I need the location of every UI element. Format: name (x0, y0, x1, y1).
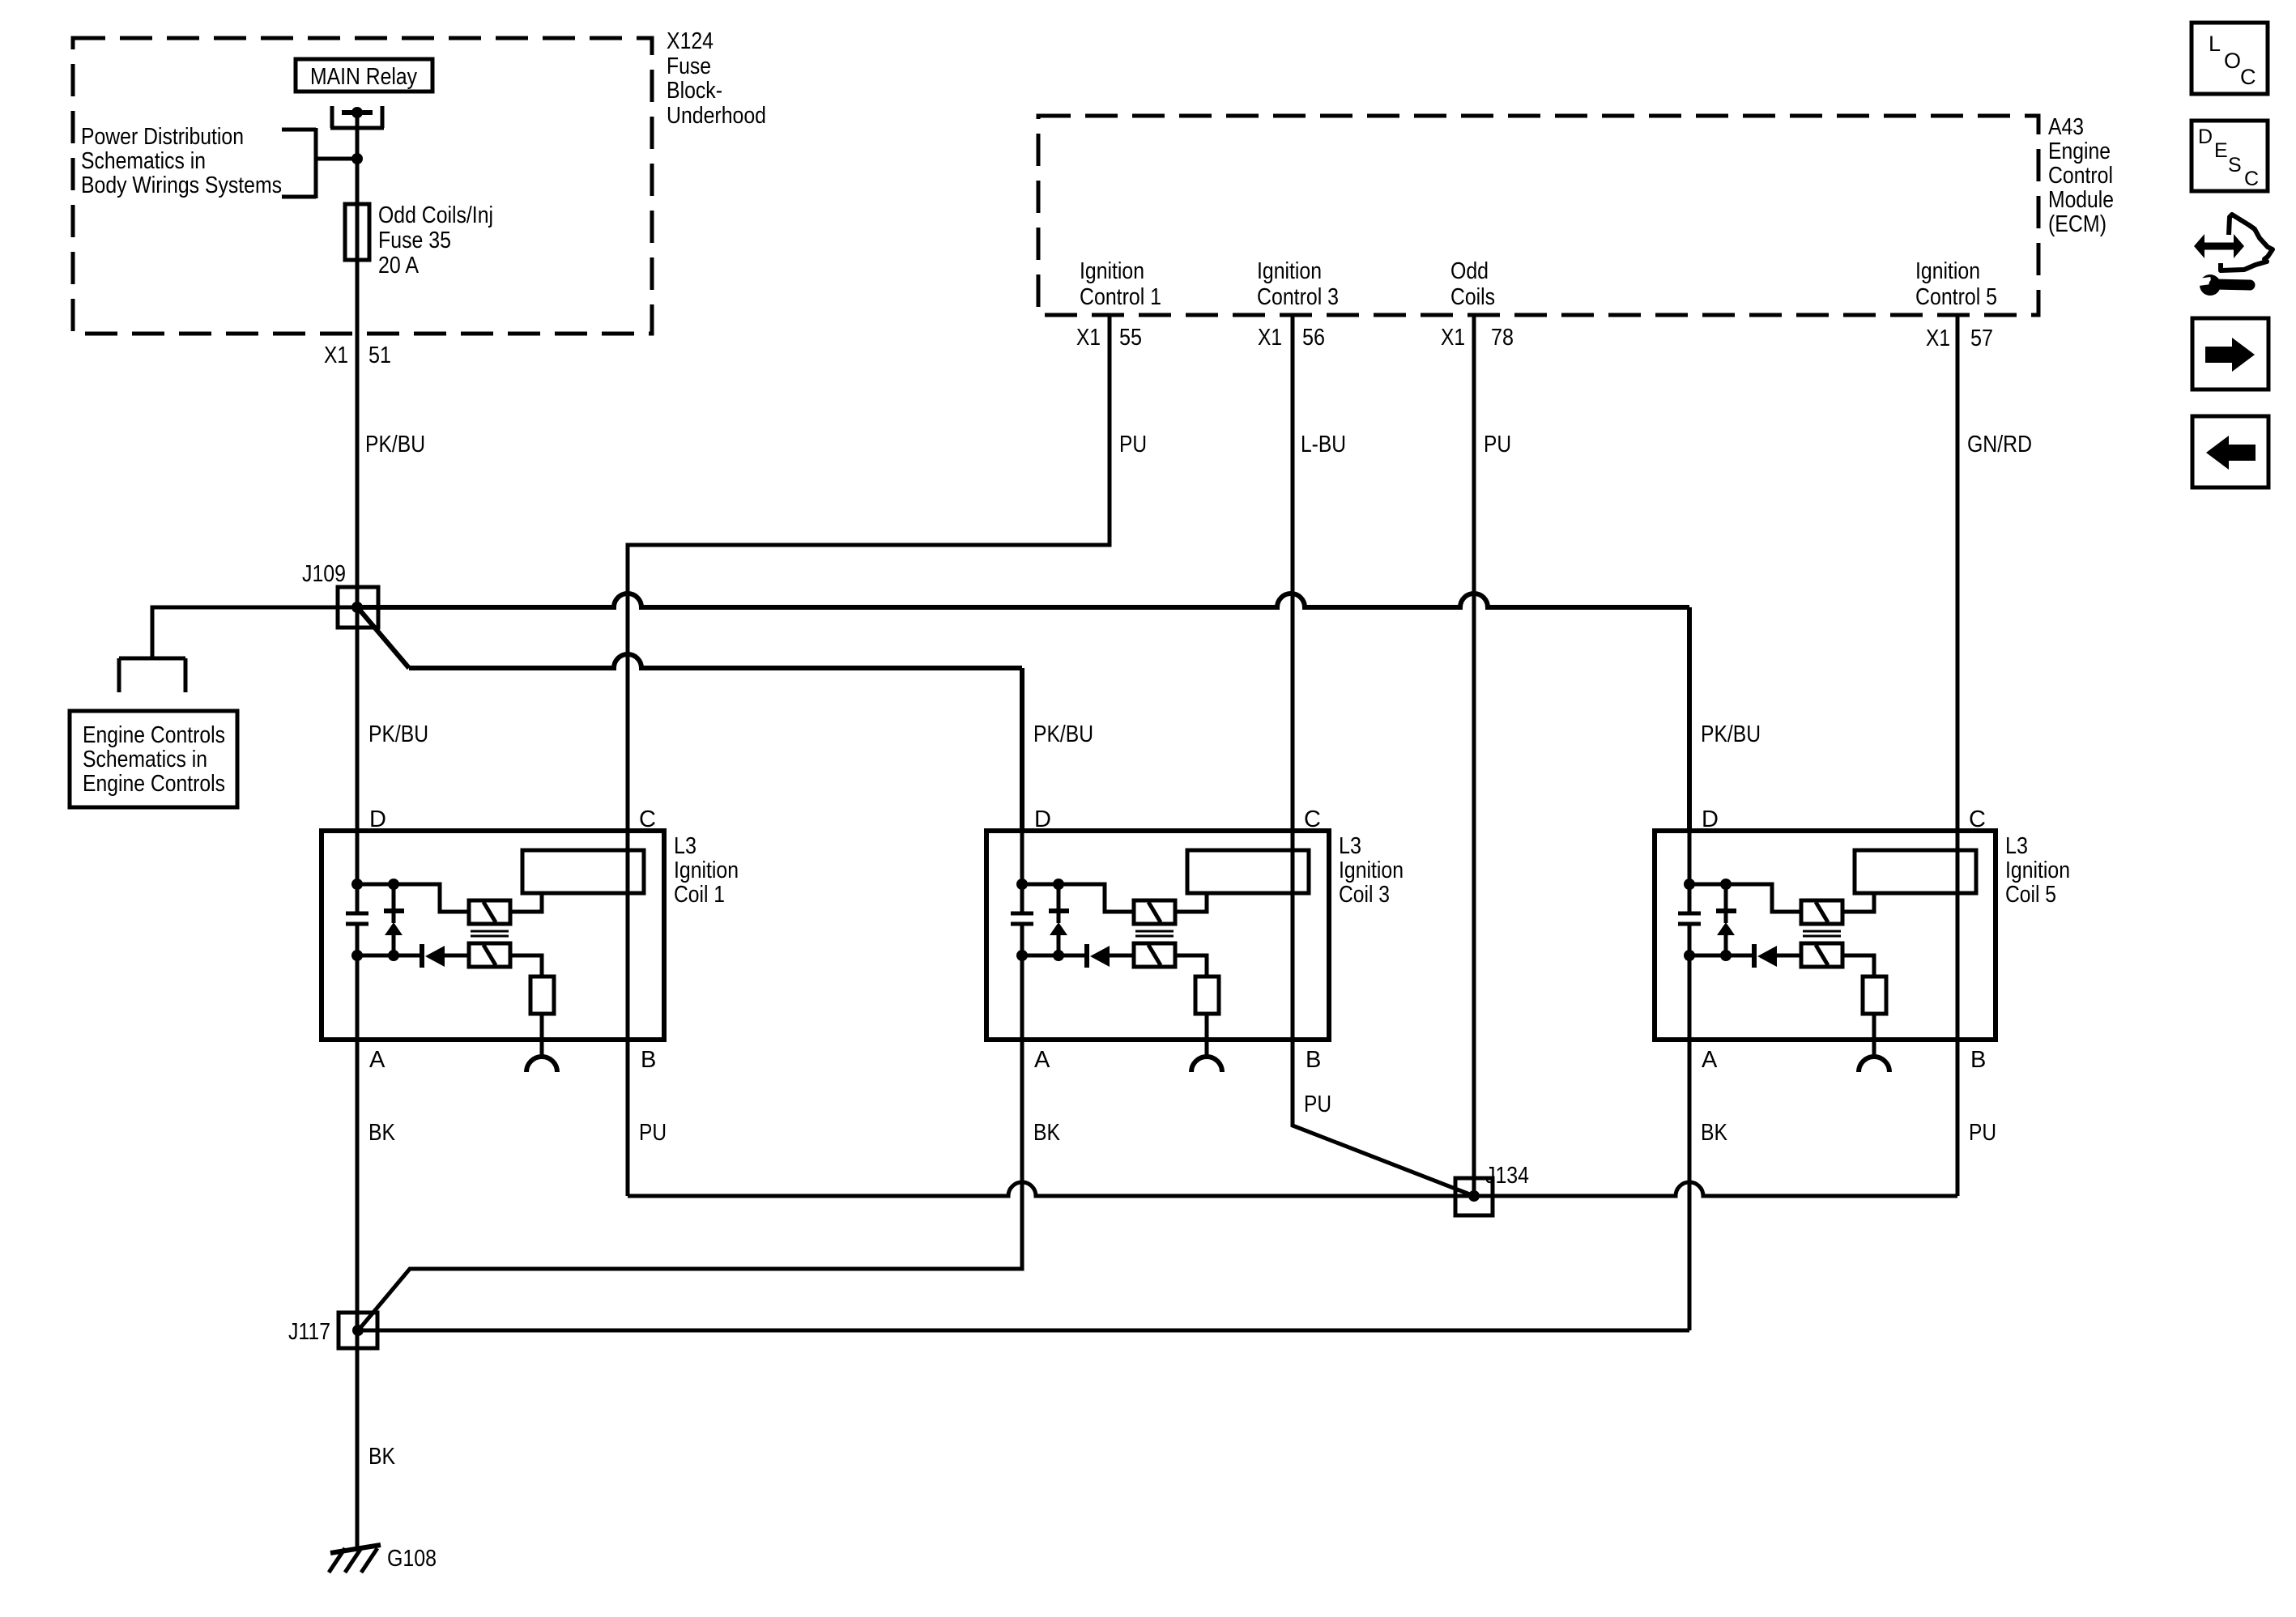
bus wire BK - J117 ground bus to coil5 pin A (358, 1329, 1689, 1333)
svg-text:Body Wirings Systems: Body Wirings Systems (81, 172, 282, 198)
svg-text:J109: J109 (302, 561, 346, 587)
svg-text:Fuse 35: Fuse 35 (378, 228, 451, 253)
node - coil 5 zener top junction (1720, 879, 1732, 890)
svg-text:BK: BK (1701, 1120, 1728, 1146)
svg-text:D: D (1702, 806, 1719, 832)
label Ignition Control 3 (ECM pin function) (1257, 258, 1339, 310)
svg-text:D: D (2198, 126, 2213, 148)
node - coil 1 zener top junction (388, 879, 399, 890)
node - coil 1 diode-branch junction (388, 950, 399, 961)
wire - coil5 pin C vertical through module (1956, 831, 1960, 1040)
svg-text:57: 57 (1970, 326, 1993, 351)
wire - coil 3 lower driver to resistor (1175, 955, 1207, 977)
splice J134 box (1455, 1178, 1493, 1215)
label Odd Coils (ECM pin function) (1450, 258, 1495, 310)
label connector X1 pin 51 (324, 343, 391, 368)
wire - coil 3 internal D-A line (1020, 831, 1024, 1040)
primary winding box - coil 3 (1187, 850, 1309, 893)
resistor - coil 5 secondary (1863, 977, 1886, 1014)
wire - coil 1 upper driver to primary winding (510, 893, 542, 912)
icon back arrow box (2192, 416, 2268, 487)
relay contact (MAIN relay switch) (330, 106, 384, 128)
ECM A43 dashed outline (1038, 116, 2038, 315)
svg-text:PU: PU (639, 1120, 667, 1146)
label connector X1 pin 78 (1441, 325, 1514, 351)
node - coil 1 upper-left junction (351, 879, 363, 890)
svg-text:PK/BU: PK/BU (368, 721, 428, 747)
svg-text:X1: X1 (1926, 326, 1950, 351)
svg-text:Ignition: Ignition (1257, 258, 1322, 284)
driver stage upper - coil 1 (box with slash) (469, 900, 510, 924)
svg-text:S: S (2228, 154, 2242, 177)
svg-text:PK/BU: PK/BU (1701, 721, 1761, 747)
svg-text:MAIN Relay: MAIN Relay (310, 64, 417, 90)
svg-text:PU: PU (1969, 1120, 1996, 1146)
svg-text:A: A (1702, 1047, 1718, 1073)
svg-text:51: 51 (368, 343, 391, 368)
wire - coil 5 upper driver to primary winding (1842, 893, 1874, 912)
ignition coil L3 #3 module outline (986, 831, 1329, 1040)
wire BK - coil3 pin A down and left toward J117 (360, 1040, 1022, 1329)
wire - coil 3 lower internal branch (1022, 954, 1084, 958)
ground G108 symbol (329, 1545, 381, 1572)
svg-text:Coil 5: Coil 5 (2005, 882, 2056, 908)
splice J109 box (338, 587, 378, 628)
wire - coil 5 lower internal branch (1689, 954, 1752, 958)
svg-text:C: C (639, 806, 656, 832)
driver stage upper - coil 5 (box with slash) (1801, 900, 1842, 924)
bus wire PU - coil1 B to J134 to coil5 B (hops over ground wires) (628, 1182, 1957, 1196)
svg-text:PK/BU: PK/BU (1033, 721, 1093, 747)
svg-text:Control 3: Control 3 (1257, 284, 1339, 310)
wire - fuse to connector X1 pin 51 (356, 260, 360, 334)
label L3 Ignition Coil 3 (1339, 833, 1404, 908)
svg-text:B: B (1970, 1047, 1986, 1073)
wire - coil 1 lower driver to resistor (510, 955, 542, 977)
core bars - coil 1 (471, 931, 509, 936)
svg-text:B: B (641, 1047, 656, 1073)
diode - coil 1 (cathode left) (422, 944, 469, 968)
svg-text:(ECM): (ECM) (2048, 211, 2106, 237)
bracket - Power Distribution reference (282, 128, 357, 198)
MAIN Relay name box (296, 59, 432, 91)
wire PU - ECM pin 55 to coil1 pin C (628, 315, 1110, 1196)
svg-text:A: A (1034, 1047, 1050, 1073)
icon forward arrow box (2192, 318, 2268, 389)
node - coil 5 diode-branch junction (1720, 950, 1732, 961)
wire - coil 5 internal D-A line (1688, 831, 1692, 1040)
svg-text:20 A: 20 A (378, 253, 420, 279)
svg-text:Control 5: Control 5 (1915, 284, 1997, 310)
svg-text:Odd Coils/Inj: Odd Coils/Inj (378, 202, 493, 228)
capacitor - coil 3 suppression (1011, 913, 1033, 924)
primary winding box - coil 1 (522, 850, 644, 893)
capacitor - coil 1 suppression (346, 913, 368, 924)
fuse F35 Odd Coils/Inj 20A symbol (345, 204, 369, 260)
label L3 Ignition Coil 1 (674, 833, 739, 908)
icon LOC box (2192, 23, 2268, 94)
icon part-locator (double arrow, part outline, wrench) (2187, 215, 2273, 296)
bus wire PK/BU - J109 to coil5 pin D (hops over crossing wires) (357, 594, 1689, 607)
ignition coil L3 #1 module outline (322, 831, 664, 1040)
driver stage upper - coil 3 (box with slash) (1134, 900, 1175, 924)
node - coil 3 diode-branch junction (1053, 950, 1064, 961)
zener diode - coil 5 clamp (1716, 884, 1736, 955)
driver stage lower - coil 3 (box with slash) (1134, 943, 1175, 967)
core bars - coil 5 (1803, 931, 1841, 936)
svg-text:Coil 3: Coil 3 (1339, 882, 1390, 908)
wire PK/BU - bus drop to coil5 pin D (1687, 607, 1692, 831)
svg-text:X1: X1 (1258, 325, 1282, 351)
svg-text:C: C (2240, 65, 2256, 89)
svg-text:E: E (2214, 139, 2228, 162)
diode - coil 5 (cathode left) (1754, 944, 1801, 968)
wire BK - coil1 pin A down to splice J117 (356, 1040, 360, 1548)
svg-text:Engine Controls: Engine Controls (83, 722, 225, 748)
svg-text:O: O (2224, 49, 2241, 73)
svg-text:PU: PU (1119, 432, 1147, 457)
resistor - coil 3 secondary (1195, 977, 1219, 1014)
svg-text:X1: X1 (1076, 325, 1101, 351)
svg-text:Ignition: Ignition (674, 857, 739, 883)
svg-text:Block-: Block- (667, 78, 722, 104)
label connector X1 pin 55 (1076, 325, 1142, 351)
wire L-BU - ECM pin 56 to coil3 pin C (1291, 315, 1295, 831)
spark plug gap - coil 3 (1191, 1057, 1222, 1072)
label connector X1 pin 57 (1926, 326, 1993, 351)
zener diode - coil 3 clamp (1049, 884, 1069, 955)
svg-text:C: C (1969, 806, 1986, 832)
svg-text:55: 55 (1119, 325, 1142, 351)
wire - coil 3 top internal branch (1022, 884, 1134, 912)
node - coil 3 zener top junction (1053, 879, 1064, 890)
label Odd Coils/Inj Fuse 35 20 A (378, 202, 493, 279)
svg-text:Power Distribution: Power Distribution (81, 124, 244, 150)
wire BK - coil5 pin A down to ground bus (1688, 1040, 1692, 1330)
svg-text:X1: X1 (324, 343, 348, 368)
node - coil 1 lower-left junction (351, 950, 363, 961)
svg-text:Ignition: Ignition (1915, 258, 1980, 284)
svg-text:B: B (1306, 1047, 1321, 1073)
node - coil 5 upper-left junction (1684, 879, 1695, 890)
node - coil 5 lower-left junction (1684, 950, 1695, 961)
svg-text:L3: L3 (2005, 833, 2028, 859)
svg-text:Control: Control (2048, 163, 2113, 189)
svg-text:Ignition: Ignition (2005, 857, 2070, 883)
svg-text:C: C (1304, 806, 1321, 832)
label A43 Engine Control Module (ECM) (2048, 114, 2114, 237)
label Ignition Control 5 (ECM pin function) (1915, 258, 1997, 310)
svg-text:A43: A43 (2048, 114, 2084, 140)
node - J134 junction dot (1468, 1190, 1480, 1202)
svg-text:X1: X1 (1441, 325, 1465, 351)
wire PK/BU - X124 pin51 down to J109 and coil1 pin D (356, 334, 360, 831)
svg-text:A: A (369, 1047, 386, 1073)
svg-text:L: L (2209, 32, 2221, 56)
spark plug gap - coil 5 (1859, 1057, 1889, 1072)
svg-text:Fuse: Fuse (667, 53, 711, 79)
driver stage lower - coil 1 (box with slash) (469, 943, 510, 967)
splice J117 box (339, 1313, 377, 1348)
svg-text:BK: BK (1033, 1120, 1061, 1146)
node - J117 junction dot (352, 1325, 364, 1336)
svg-text:Engine Controls: Engine Controls (83, 771, 225, 797)
svg-text:Ignition: Ignition (1339, 857, 1404, 883)
svg-text:GN/RD: GN/RD (1967, 432, 2032, 457)
node - coil 3 lower-left junction (1016, 950, 1028, 961)
label X124 Fuse Block-Underhood (667, 28, 766, 129)
wire - coil 5 resistor to spark gap (1872, 1014, 1876, 1057)
svg-text:Coils: Coils (1450, 284, 1495, 310)
svg-text:D: D (369, 806, 386, 832)
core bars - coil 3 (1135, 931, 1174, 936)
svg-text:J117: J117 (288, 1319, 330, 1345)
svg-text:PU: PU (1304, 1091, 1331, 1117)
svg-text:PK/BU: PK/BU (365, 432, 425, 457)
svg-text:78: 78 (1491, 325, 1514, 351)
svg-text:Control 1: Control 1 (1080, 284, 1161, 310)
svg-text:L-BU: L-BU (1301, 432, 1346, 457)
svg-text:Engine: Engine (2048, 138, 2111, 164)
primary winding box - coil 5 (1855, 850, 1976, 893)
wire - coil 1 internal D-A line (356, 831, 360, 1040)
wire - relay to fuse (356, 113, 360, 204)
svg-text:56: 56 (1302, 325, 1325, 351)
svg-text:BK: BK (368, 1444, 396, 1470)
wire - coil3 pin C vertical through module (1291, 831, 1295, 1040)
node - junction dot at relay feed (351, 153, 363, 164)
svg-text:C: C (2244, 168, 2259, 190)
svg-text:Underhood: Underhood (667, 103, 766, 129)
svg-text:D: D (1034, 806, 1051, 832)
node - coil 3 upper-left junction (1016, 879, 1028, 890)
label Power Distribution Schematics in Body Wirings Systems (81, 124, 282, 198)
label box Engine Controls Schematics in Engine Controls (70, 711, 237, 807)
wire - coil 5 lower driver to resistor (1842, 955, 1874, 977)
svg-text:Schematics in: Schematics in (81, 148, 206, 174)
spark plug gap - coil 1 (526, 1057, 557, 1072)
svg-text:J134: J134 (1485, 1163, 1529, 1189)
icon DESC box (2192, 121, 2268, 191)
wire - J109 left branch to Engine Controls reference (152, 607, 357, 658)
wire - coil 1 lower internal branch (357, 954, 420, 958)
svg-text:PU: PU (1484, 432, 1511, 457)
resistor - coil 1 secondary (530, 977, 554, 1014)
label L3 Ignition Coil 5 (2005, 833, 2070, 908)
svg-text:Coil 1: Coil 1 (674, 882, 725, 908)
diode - coil 3 (cathode left) (1087, 944, 1134, 968)
zener diode - coil 1 clamp (384, 884, 404, 955)
svg-text:L3: L3 (1339, 833, 1361, 859)
wire GN/RD - ECM pin 57 to coil5 pin C (1956, 315, 1960, 1196)
svg-text:L3: L3 (674, 833, 696, 859)
fuse block X124 dashed outline (73, 38, 652, 334)
svg-text:G108: G108 (387, 1546, 437, 1572)
wire PK/BU - J109 diagonal branch to coil3 pin D (359, 609, 1022, 831)
wire PU - coil3 pin B diagonal to splice J134 (1293, 1040, 1474, 1196)
svg-text:X124: X124 (667, 28, 714, 54)
wire - coil1 pin C vertical through module (626, 831, 630, 1040)
svg-text:BK: BK (368, 1120, 396, 1146)
wire - coil 1 resistor to spark gap (540, 1014, 544, 1057)
driver stage lower - coil 5 (box with slash) (1801, 943, 1842, 967)
label connector X1 pin 56 (1258, 325, 1325, 351)
svg-text:Ignition: Ignition (1080, 258, 1144, 284)
wire PU - ECM pin 78 Odd Coils down to splice J134 (1472, 315, 1476, 1196)
wire - coil 1 top internal branch (357, 884, 469, 912)
svg-text:Module: Module (2048, 187, 2114, 213)
svg-text:Odd: Odd (1450, 258, 1489, 284)
node - J109 junction dot (351, 602, 363, 613)
wire - coil 3 upper driver to primary winding (1175, 893, 1207, 912)
ignition coil L3 #5 module outline (1655, 831, 1996, 1040)
capacitor - coil 5 suppression (1678, 913, 1701, 924)
wire - coil 3 resistor to spark gap (1205, 1014, 1209, 1057)
label Ignition Control 1 (ECM pin function) (1080, 258, 1161, 310)
svg-text:Schematics in: Schematics in (83, 747, 207, 772)
bracket - Engine Controls reference (119, 658, 185, 692)
wire - coil 5 top internal branch (1689, 884, 1801, 912)
